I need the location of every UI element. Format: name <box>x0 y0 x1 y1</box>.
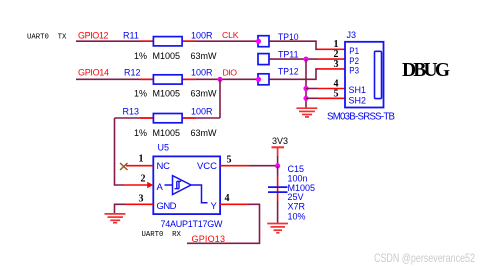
svg-text:100R: 100R <box>191 31 213 41</box>
wire pin3 to ground <box>115 204 127 213</box>
junction SH1 <box>303 86 308 91</box>
pin 3 GND stub <box>126 203 153 205</box>
watermark CSDN <box>374 252 475 265</box>
svg-text:DBUG: DBUG <box>402 60 450 81</box>
pin name P1 <box>349 46 359 57</box>
wire SH1 stub <box>306 88 318 90</box>
svg-text:100R: 100R <box>191 107 213 117</box>
svg-text:R12: R12 <box>124 68 141 78</box>
wire C15 to ground <box>277 201 279 223</box>
pin number 5 (J3) <box>334 89 339 100</box>
resistor R12 <box>140 75 196 84</box>
svg-text:NC: NC <box>157 161 171 172</box>
svg-text:DIO: DIO <box>223 68 238 78</box>
svg-text:3V3: 3V3 <box>272 136 288 146</box>
svg-text:U5: U5 <box>158 143 170 153</box>
resistor R13 <box>140 114 196 123</box>
value SM03B-SRSS-TB <box>327 112 395 123</box>
svg-text:3: 3 <box>334 59 339 70</box>
net label DIO <box>223 68 238 78</box>
svg-text:74AUP1T17GW: 74AUP1T17GW <box>161 219 224 229</box>
value 100R (R12) <box>191 68 213 78</box>
svg-text:63mW: 63mW <box>191 89 218 99</box>
resistor R11 <box>140 37 196 46</box>
wire DIO junction down to R13 right side <box>219 79 221 118</box>
svg-text:3: 3 <box>139 194 144 205</box>
wire GPIO14 to R12 and to J3 pin3 (row 2) <box>76 69 318 79</box>
power symbol 3V3 <box>272 136 289 156</box>
svg-text:TP10: TP10 <box>278 32 299 42</box>
op-amp buffer U5 <box>153 156 220 214</box>
pin name SH2 <box>349 95 367 106</box>
pin number 5 (U5) <box>227 155 232 166</box>
wire R13 left down to U5 pin A <box>115 118 125 185</box>
svg-text:GND: GND <box>157 201 177 212</box>
svg-text:A: A <box>157 182 164 193</box>
pin name P3 <box>349 66 359 77</box>
svg-text:5: 5 <box>334 89 339 100</box>
value 100R (R13) <box>191 107 213 117</box>
svg-text:1%: 1% <box>134 51 147 61</box>
pin number 1 (J3) <box>334 39 339 50</box>
pin number 3 (U5) <box>139 194 144 205</box>
pin number 3 (J3) <box>334 59 339 70</box>
pin number 1 (U5) <box>139 154 144 165</box>
no-connect X on pin 1 <box>120 163 128 170</box>
wire 3V3 down to junction <box>277 156 279 166</box>
label R12 <box>124 68 141 78</box>
svg-text:GPIO13: GPIO13 <box>192 234 226 244</box>
pin name Y <box>211 201 218 212</box>
wire R13 row horizontal <box>115 117 221 119</box>
value 10% <box>288 212 306 222</box>
svg-text:UART0 TX: UART0 TX <box>27 33 67 41</box>
net label UART0 RX <box>142 231 182 239</box>
value 100n <box>288 173 308 183</box>
svg-text:Y: Y <box>211 201 218 212</box>
pin name NC <box>157 161 171 172</box>
wire VCC to 3V3/C15 node <box>250 165 278 167</box>
label C15 <box>288 164 305 174</box>
pin name VCC <box>197 161 217 172</box>
net label UART0 TX <box>27 33 67 41</box>
value M1005 (C15) <box>288 183 316 193</box>
svg-text:UART0 RX: UART0 RX <box>142 231 182 239</box>
value 1% M1005 63mW (R12) <box>134 89 217 99</box>
svg-text:5: 5 <box>227 155 232 166</box>
net label GPIO13 <box>192 234 226 244</box>
capacitor C15 <box>268 177 288 202</box>
label TP11 <box>278 50 299 60</box>
junction at TP12 <box>256 77 261 82</box>
wire SH2 stub <box>306 97 318 99</box>
value X7R <box>288 202 306 212</box>
net label CLK <box>222 30 239 40</box>
svg-text:M1005: M1005 <box>153 89 181 99</box>
pin number 2 (U5) <box>141 174 146 185</box>
svg-text:4: 4 <box>225 193 230 204</box>
svg-text:X7R: X7R <box>288 202 306 212</box>
pin name GND <box>157 201 177 212</box>
svg-text:1%: 1% <box>134 128 147 138</box>
svg-text:GPIO12: GPIO12 <box>78 31 109 41</box>
test point TP12 <box>258 74 269 85</box>
svg-text:R11: R11 <box>123 31 139 41</box>
pin number 2 (J3) <box>334 49 339 60</box>
wire U5 Y pin to GPIO13 <box>187 204 260 243</box>
wire junction down to C15 <box>277 166 279 177</box>
value 1% M1005 63mW (R13) <box>134 128 217 138</box>
svg-text:TP11: TP11 <box>278 50 299 60</box>
junction TP11/P2 ground bus <box>303 57 308 62</box>
svg-text:10%: 10% <box>288 212 306 222</box>
pin number 4 (U5) <box>225 193 230 204</box>
svg-text:CSDN @perseverance52: CSDN @perseverance52 <box>374 252 475 265</box>
svg-text:P3: P3 <box>349 66 359 77</box>
ground symbol at U5 pin3 <box>105 214 126 223</box>
wire ground bus vertical <box>305 59 307 108</box>
svg-text:1%: 1% <box>134 89 147 99</box>
pin number 4 (J3) <box>334 79 339 90</box>
junction SH2 <box>303 96 308 101</box>
svg-text:GPIO14: GPIO14 <box>78 68 109 78</box>
wire GPIO12 to R11 and to J3 pin1 (row 1) <box>76 41 318 49</box>
label TP12 <box>278 67 299 77</box>
junction at TP10 <box>256 39 261 44</box>
ground symbol at J3 bus <box>297 108 318 117</box>
svg-text:J3: J3 <box>347 30 357 40</box>
svg-text:SM03B-SRSS-TB: SM03B-SRSS-TB <box>327 112 395 123</box>
test point TP11 <box>258 54 269 65</box>
pin name P2 <box>349 56 359 67</box>
pin name SH1 <box>349 85 367 96</box>
net label GPIO14 <box>78 68 109 78</box>
pin 5 VCC stub <box>220 165 249 167</box>
pin 4 Y stub <box>220 203 247 205</box>
svg-text:63mW: 63mW <box>191 51 218 61</box>
svg-text:SH2: SH2 <box>349 95 367 106</box>
junction DIO node <box>217 77 222 82</box>
label TP10 <box>278 32 299 42</box>
svg-text:M1005: M1005 <box>153 128 181 138</box>
label R13 <box>123 107 140 117</box>
pin 1 NC stub <box>126 165 153 167</box>
value 25V <box>288 192 304 202</box>
buffer triangle symbol inside U5 <box>165 176 208 203</box>
test point TP10 <box>258 36 269 47</box>
junction VCC/3V3/C15 <box>275 163 280 168</box>
svg-text:2: 2 <box>141 174 146 185</box>
label R11 <box>123 31 139 41</box>
ground symbol at C15 <box>267 224 288 233</box>
svg-text:VCC: VCC <box>197 161 217 172</box>
svg-text:TP12: TP12 <box>278 67 299 77</box>
pin 2 A stub with arrow <box>124 182 153 188</box>
wire TP11 to J3 pin2 <box>269 58 318 60</box>
net label GPIO12 <box>78 31 109 41</box>
svg-text:63mW: 63mW <box>191 128 218 138</box>
value 1% M1005 63mW (R11) <box>134 51 217 61</box>
svg-text:CLK: CLK <box>222 30 239 40</box>
title DBUG <box>402 60 450 81</box>
connector J3 <box>318 42 384 108</box>
label U5 <box>158 143 170 153</box>
label J3 <box>347 30 357 40</box>
value 74AUP1T17GW <box>161 219 224 229</box>
svg-text:R13: R13 <box>123 107 140 117</box>
value 100R (R11) <box>191 31 213 41</box>
svg-text:M1005: M1005 <box>153 51 181 61</box>
svg-text:SH1: SH1 <box>349 85 367 96</box>
svg-text:100R: 100R <box>191 68 213 78</box>
svg-text:1: 1 <box>139 154 144 165</box>
pin name A <box>157 182 164 193</box>
